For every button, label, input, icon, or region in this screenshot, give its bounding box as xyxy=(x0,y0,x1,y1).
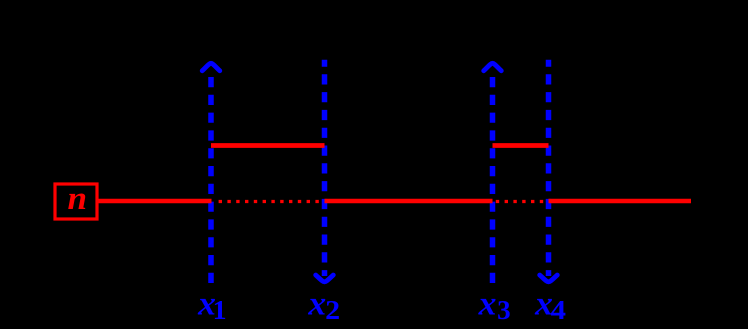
svg-text:2: 2 xyxy=(325,295,340,325)
dashed vertical line x1 xyxy=(208,77,214,285)
svg-text:1: 1 xyxy=(213,295,227,325)
wire: main red line solid segment 3 xyxy=(549,199,692,204)
svg-text:4: 4 xyxy=(551,295,567,325)
dashed vertical line x4 xyxy=(546,60,552,276)
arrowhead up x3 xyxy=(484,63,502,71)
svg-text:3: 3 xyxy=(497,295,511,325)
wire: main red line solid segment 1 xyxy=(99,199,212,204)
arrowhead down x4 xyxy=(540,275,558,282)
node box n xyxy=(55,184,97,219)
arrowhead down x2 xyxy=(316,275,334,282)
svg-text:x: x xyxy=(307,286,326,323)
wire: main red line solid segment 2 xyxy=(325,199,493,204)
dashed vertical line x2 xyxy=(322,60,328,276)
upper red segment x1-x2 xyxy=(211,143,325,148)
upper red segment x3-x4 xyxy=(493,143,549,148)
arrowhead up x1 xyxy=(202,63,220,71)
svg-text:n: n xyxy=(68,181,88,217)
svg-text:x: x xyxy=(478,286,497,323)
wire: dotted red segment x1-x2 xyxy=(219,200,324,203)
wire: dotted red segment x3-x4 xyxy=(496,200,548,203)
dashed vertical line x3 xyxy=(490,77,496,285)
